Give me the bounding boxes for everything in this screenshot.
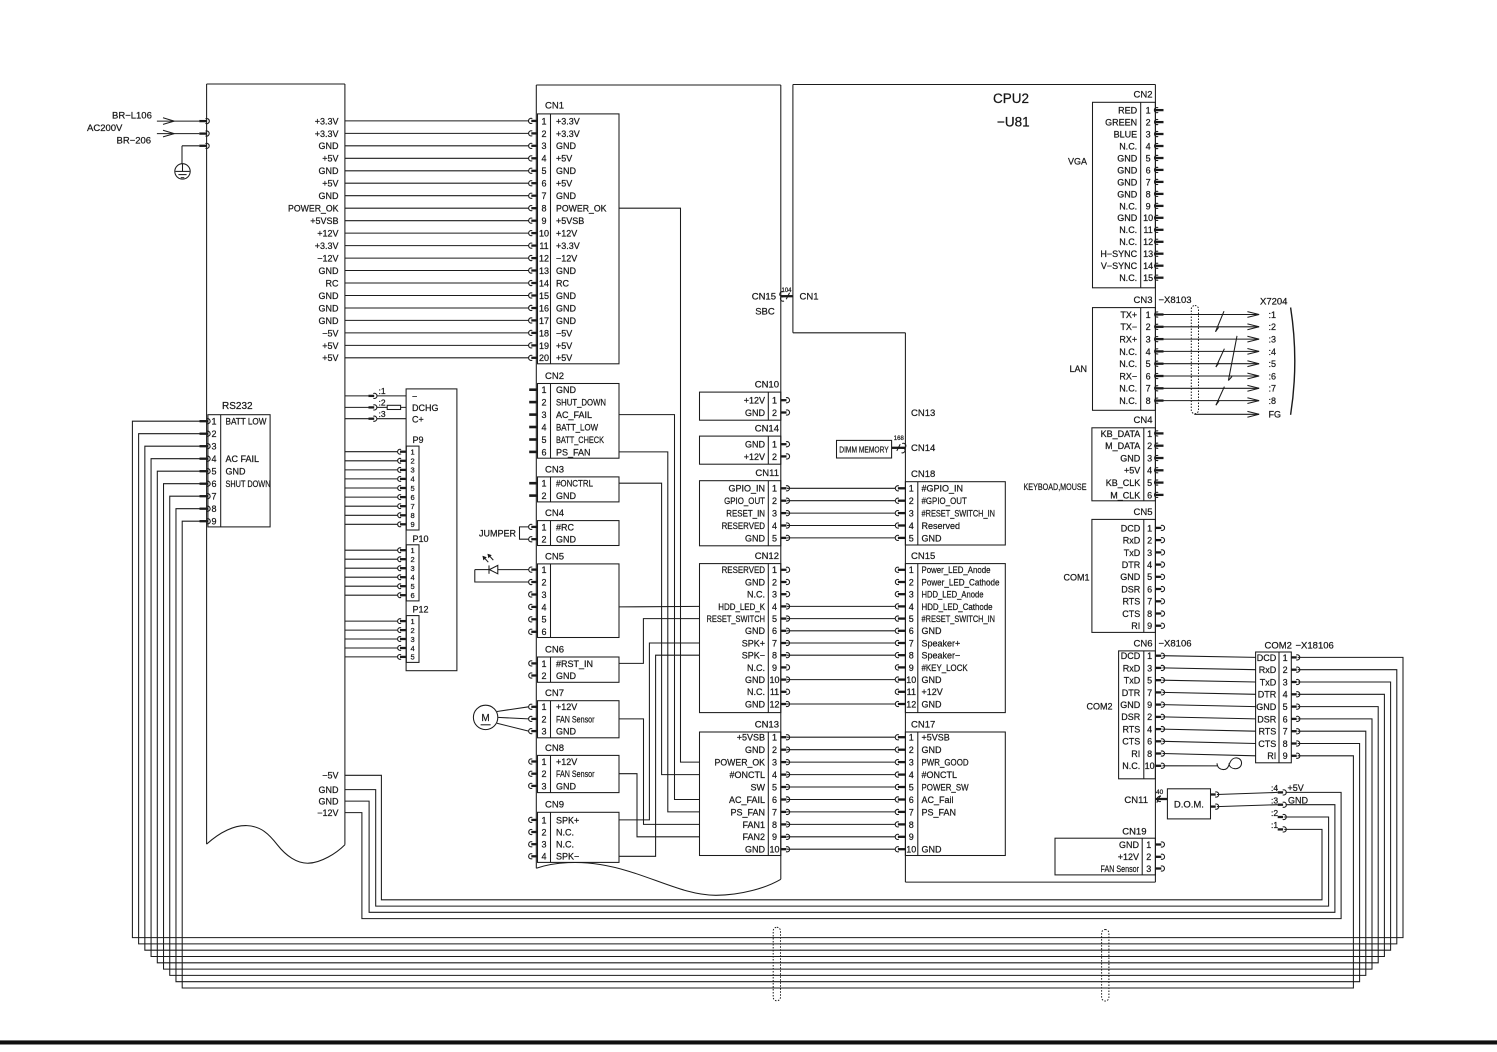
svg-text:4: 4	[541, 602, 546, 612]
svg-text:6: 6	[1147, 737, 1152, 747]
connector CN14 (SBC)	[700, 424, 790, 465]
svg-text:10: 10	[769, 845, 779, 855]
SBC board outline	[536, 85, 781, 895]
svg-text:1: 1	[541, 565, 546, 575]
svg-text:FAN2: FAN2	[742, 832, 765, 842]
svg-text::4: :4	[1269, 347, 1277, 357]
svg-text:2: 2	[1147, 536, 1152, 546]
twisted pair marks on LAN wires	[1216, 311, 1238, 405]
svg-text:N.C.: N.C.	[1119, 201, 1137, 211]
svg-text:#RST_IN: #RST_IN	[556, 659, 593, 669]
svg-text:CN13: CN13	[911, 408, 935, 419]
svg-text:4: 4	[1283, 690, 1288, 700]
svg-text:1: 1	[909, 565, 914, 575]
svg-text:CN14: CN14	[911, 443, 935, 454]
svg-text:8: 8	[411, 511, 415, 520]
svg-text:15: 15	[1143, 273, 1153, 283]
svg-text:RC: RC	[556, 278, 569, 288]
svg-text:CN14: CN14	[755, 424, 779, 435]
svg-text:SPK+: SPK+	[742, 638, 765, 648]
svg-text:2: 2	[772, 496, 777, 506]
svg-text:P10: P10	[413, 534, 429, 544]
svg-text:5: 5	[1146, 153, 1151, 163]
svg-text:1: 1	[541, 757, 546, 767]
svg-text:+12V: +12V	[556, 229, 577, 239]
connector P9	[345, 435, 424, 530]
svg-text:GND: GND	[556, 291, 577, 301]
svg-text:BATT_CHECK: BATT_CHECK	[556, 435, 604, 445]
svg-text:6: 6	[909, 626, 914, 636]
svg-text:CN8: CN8	[545, 743, 564, 754]
connector CN12 (SBC front panel header)	[700, 551, 790, 713]
svg-text::3: :3	[1271, 796, 1278, 806]
D.O.M. cable hooks :4 +5V, :3 GND, :2, :1	[1271, 783, 1309, 832]
CPU2 board outline (-U81)	[793, 85, 1156, 883]
svg-text:RESET_IN: RESET_IN	[726, 509, 765, 519]
svg-text:GND: GND	[922, 845, 943, 855]
svg-text:#ONCTL: #ONCTL	[922, 770, 958, 780]
svg-text:1: 1	[541, 815, 546, 825]
svg-text:TxD: TxD	[1124, 548, 1141, 558]
svg-text:4: 4	[211, 454, 216, 464]
wire RS232 pin 4 to COM2 X18106 pin 4	[151, 459, 1384, 957]
svg-text:3: 3	[1146, 864, 1151, 874]
connector CN4 (CPU2 keyboard/mouse)	[1024, 415, 1164, 501]
svg-text:9: 9	[909, 832, 914, 842]
wire FAN2 CN8.2 to CN13.9	[619, 774, 700, 837]
svg-text:5: 5	[909, 533, 914, 543]
svg-text:8: 8	[211, 504, 216, 514]
svg-text:AC200V: AC200V	[87, 123, 123, 134]
svg-text:GND: GND	[556, 491, 577, 501]
svg-text:SHUT_DOWN: SHUT_DOWN	[556, 398, 606, 408]
socket CN13 label (CPU2)	[911, 408, 935, 419]
svg-text:DCD: DCD	[1121, 651, 1141, 661]
svg-text:GND: GND	[319, 785, 340, 795]
wire FG from shield	[1195, 410, 1281, 420]
svg-text:AC_FAIL: AC_FAIL	[729, 795, 765, 805]
svg-text:10: 10	[539, 229, 549, 239]
svg-text:4: 4	[1147, 560, 1152, 570]
svg-text:2: 2	[541, 129, 546, 139]
wire RS232 pin 9 to COM2 X18106 pin 9	[182, 521, 1353, 988]
svg-text:+5V: +5V	[322, 353, 338, 363]
svg-text:+12V: +12V	[1118, 852, 1139, 862]
svg-text:12: 12	[539, 254, 549, 264]
svg-text:3: 3	[1147, 663, 1152, 673]
svg-text:6: 6	[541, 447, 546, 457]
svg-text:6: 6	[1283, 714, 1288, 724]
connector CN18 (CPU2 GPIO)	[895, 469, 1005, 545]
svg-text:9: 9	[541, 216, 546, 226]
svg-text:CN18: CN18	[911, 469, 935, 480]
svg-text:#ONCTRL: #ONCTRL	[556, 479, 593, 489]
svg-text:2: 2	[1146, 852, 1151, 862]
svg-text:GND: GND	[745, 440, 766, 450]
svg-text:5: 5	[772, 533, 777, 543]
svg-text:8: 8	[772, 651, 777, 661]
svg-text:+5VSB: +5VSB	[310, 216, 338, 226]
svg-text:CTS: CTS	[1258, 739, 1276, 749]
svg-text:BR−L106: BR−L106	[112, 111, 152, 122]
svg-text:2: 2	[541, 535, 546, 545]
svg-text:CN1: CN1	[545, 101, 564, 112]
svg-text:H−SYNC: H−SYNC	[1100, 249, 1137, 259]
svg-text:N.C.: N.C.	[1119, 347, 1137, 357]
svg-text:DTR: DTR	[1122, 688, 1141, 698]
svg-text:5: 5	[1147, 572, 1152, 582]
svg-text:1: 1	[1283, 653, 1288, 663]
svg-text:COM1: COM1	[1063, 572, 1089, 582]
svg-text:VGA: VGA	[1068, 157, 1087, 167]
svg-text:HDD_LED_Cathode: HDD_LED_Cathode	[922, 602, 993, 612]
svg-text:Reserved: Reserved	[922, 521, 961, 531]
svg-text:7: 7	[772, 807, 777, 817]
svg-text:+5V: +5V	[556, 341, 572, 351]
connector CN8 (SBC fan)	[529, 743, 619, 793]
svg-text:2: 2	[772, 577, 777, 587]
svg-text:3: 3	[541, 727, 546, 737]
svg-text:+12V: +12V	[556, 757, 577, 767]
svg-text:2: 2	[1147, 441, 1152, 451]
svg-text::4: :4	[1271, 783, 1278, 793]
svg-text:FAN Sensor: FAN Sensor	[556, 769, 595, 779]
svg-text:3: 3	[411, 564, 415, 573]
svg-text:N.C.: N.C.	[1119, 384, 1137, 394]
svg-text:+12V: +12V	[744, 396, 765, 406]
svg-text:9: 9	[909, 663, 914, 673]
svg-text:8: 8	[909, 820, 914, 830]
svg-text:6: 6	[411, 591, 415, 600]
svg-text:CN4: CN4	[1133, 415, 1152, 426]
LAN wires CN3 to X7204	[1164, 310, 1277, 406]
svg-text:RTS: RTS	[1122, 725, 1140, 735]
svg-text:1: 1	[411, 546, 415, 555]
wire PSU GND to D.O.M. side	[319, 797, 1335, 913]
svg-text:SHUT DOWN: SHUT DOWN	[226, 479, 271, 489]
svg-text:+12V: +12V	[744, 452, 765, 462]
svg-text:X7204: X7204	[1260, 296, 1287, 307]
svg-text:1: 1	[541, 659, 546, 669]
connector CN11 (SBC GPIO)	[700, 468, 790, 546]
svg-text:+3.3V: +3.3V	[315, 241, 339, 251]
svg-text:8: 8	[541, 204, 546, 214]
wire SPK- CN9.4 to CN12.8	[619, 655, 700, 856]
svg-text:7: 7	[411, 502, 415, 511]
svg-text:6: 6	[541, 179, 546, 189]
svg-text:1: 1	[211, 417, 216, 427]
svg-text:Speaker+: Speaker+	[922, 638, 961, 648]
svg-text:3: 3	[541, 141, 546, 151]
svg-text:1: 1	[1147, 523, 1152, 533]
svg-text:GND: GND	[922, 699, 943, 709]
svg-text:#RC: #RC	[556, 522, 575, 532]
svg-text:5: 5	[1146, 359, 1151, 369]
svg-text:FAN Sensor: FAN Sensor	[1101, 864, 1140, 874]
svg-text:RI: RI	[1131, 621, 1140, 631]
svg-text::1: :1	[1269, 310, 1277, 320]
svg-text:CN15: CN15	[752, 292, 776, 303]
svg-text:9: 9	[1283, 751, 1288, 761]
svg-text::2: :2	[379, 398, 386, 408]
cable bundle marker (dashed) right	[1102, 930, 1109, 1002]
svg-text:2: 2	[541, 671, 546, 681]
svg-text:POWER_SW: POWER_SW	[922, 782, 970, 792]
svg-text:GND: GND	[1120, 453, 1141, 463]
connector CN15 (CPU2 front panel)	[895, 551, 1005, 713]
svg-text:KB_DATA: KB_DATA	[1101, 429, 1141, 439]
svg-text:3: 3	[541, 590, 546, 600]
svg-text:Speaker−: Speaker−	[922, 651, 961, 661]
svg-text:CN2: CN2	[545, 371, 564, 382]
svg-text:4: 4	[1146, 347, 1151, 357]
svg-text:GND: GND	[922, 626, 943, 636]
svg-text:GND: GND	[745, 408, 766, 418]
svg-text:2: 2	[541, 398, 546, 408]
svg-text:FAN Sensor: FAN Sensor	[556, 714, 595, 724]
svg-text:1: 1	[1146, 106, 1151, 116]
svg-text:9: 9	[211, 517, 216, 527]
svg-text:GND: GND	[1256, 702, 1277, 712]
svg-text::8: :8	[1269, 396, 1277, 406]
svg-text:GND: GND	[1117, 189, 1138, 199]
svg-text:6: 6	[1146, 371, 1151, 381]
svg-text:7: 7	[909, 807, 914, 817]
svg-text:12: 12	[769, 699, 779, 709]
svg-text:+5VSB: +5VSB	[922, 733, 950, 743]
svg-text:GND: GND	[556, 141, 577, 151]
svg-text:CN15: CN15	[911, 551, 935, 562]
svg-text:11: 11	[770, 687, 779, 697]
svg-text:5: 5	[772, 782, 777, 792]
svg-text:+5VSB: +5VSB	[556, 216, 584, 226]
svg-text:COM2: COM2	[1086, 702, 1112, 712]
svg-text:CN17: CN17	[911, 719, 935, 730]
svg-text:N.C.: N.C.	[1119, 359, 1137, 369]
connector CN5 (CPU2 COM1)	[1063, 507, 1164, 633]
svg-text:8: 8	[1146, 189, 1151, 199]
svg-text:N.C.: N.C.	[1119, 225, 1137, 235]
wire RS232 pin 8 to COM2 X18106 pin 8	[176, 509, 1360, 982]
svg-text:RX−: RX−	[1119, 371, 1137, 381]
connector CN4 (SBC) with jumper	[529, 508, 619, 546]
svg-text:2: 2	[541, 769, 546, 779]
svg-text:AC_Fail: AC_Fail	[922, 795, 954, 805]
svg-text:1: 1	[1147, 429, 1152, 439]
svg-text:GND: GND	[556, 781, 577, 791]
wire CN5.4 to CN12.4 HDD_LED_K	[619, 605, 700, 608]
svg-text:N.C.: N.C.	[1119, 141, 1137, 151]
svg-text:8: 8	[1283, 739, 1288, 749]
svg-text:13: 13	[1143, 249, 1153, 259]
svg-text:1: 1	[411, 617, 415, 626]
svg-text:CN3: CN3	[1133, 295, 1152, 306]
wire CN6.1 #RST_IN to CN12.5 RESET_SWITCH	[619, 619, 700, 664]
svg-text:RED: RED	[1118, 106, 1138, 116]
svg-text:8: 8	[909, 651, 914, 661]
svg-text:−12V: −12V	[317, 254, 338, 264]
svg-text:9: 9	[1147, 621, 1152, 631]
svg-text:SPK−: SPK−	[742, 651, 765, 661]
svg-text:9: 9	[772, 832, 777, 842]
svg-text:1: 1	[772, 733, 777, 743]
svg-text:4: 4	[1146, 141, 1151, 151]
svg-text:CN6: CN6	[545, 644, 564, 655]
svg-text:DIMM MEMORY: DIMM MEMORY	[839, 445, 889, 455]
X7204 connector label and bracket	[1260, 296, 1295, 414]
svg-text:6: 6	[1147, 490, 1152, 500]
svg-text:1: 1	[1146, 840, 1151, 850]
svg-text:−5V: −5V	[556, 328, 572, 338]
svg-text:3: 3	[772, 509, 777, 519]
svg-text:4: 4	[1147, 725, 1152, 735]
svg-text:CN9: CN9	[545, 800, 564, 811]
svg-text:3: 3	[909, 590, 914, 600]
svg-text:GND: GND	[745, 845, 766, 855]
svg-text:GND: GND	[319, 316, 340, 326]
socket CN14 (CPU2) with DIMM MEMORY module	[837, 436, 936, 458]
svg-text:GND: GND	[556, 671, 577, 681]
svg-text:C+: C+	[412, 414, 424, 424]
svg-text:CPU2: CPU2	[993, 91, 1029, 106]
svg-text:Power_LED_Cathode: Power_LED_Cathode	[922, 577, 1000, 587]
svg-text:1: 1	[909, 733, 914, 743]
connector CN1 (SBC power input)	[528, 101, 619, 364]
svg-text:−X8103: −X8103	[1159, 295, 1192, 306]
connector CN2 (CPU2 VGA)	[1068, 90, 1164, 288]
svg-text:+5V: +5V	[322, 179, 338, 189]
svg-text:4: 4	[909, 602, 914, 612]
svg-text:GREEN: GREEN	[1105, 118, 1137, 128]
svg-text:3: 3	[772, 758, 777, 768]
svg-text:2: 2	[1146, 118, 1151, 128]
svg-text:CTS: CTS	[1122, 609, 1140, 619]
svg-text:8: 8	[772, 820, 777, 830]
svg-text:RxD: RxD	[1123, 663, 1141, 673]
svg-text:2: 2	[909, 496, 914, 506]
svg-text:10: 10	[1145, 761, 1155, 771]
svg-text:+5V: +5V	[1288, 783, 1304, 793]
svg-text:13: 13	[539, 266, 549, 276]
board link CN15(SBC)-CN1(CPU2) 104pin	[752, 288, 819, 318]
wire PS_FAN CN2.6 to CN13.7	[619, 452, 700, 812]
svg-text:RxD: RxD	[1259, 665, 1277, 675]
svg-text:−X18106: −X18106	[1296, 640, 1334, 651]
svg-text:5: 5	[909, 614, 914, 624]
svg-text:9: 9	[1146, 201, 1151, 211]
svg-text:+3.3V: +3.3V	[556, 129, 580, 139]
svg-text:2: 2	[909, 577, 914, 587]
svg-text:1: 1	[411, 448, 415, 457]
wire POWER_OK CN1.8 to CN13.3	[619, 208, 700, 762]
svg-text:CN7: CN7	[545, 688, 564, 699]
svg-text:GND: GND	[556, 316, 577, 326]
svg-text:M_DATA: M_DATA	[1105, 441, 1140, 451]
svg-text:1: 1	[541, 522, 546, 532]
svg-text:GND: GND	[556, 166, 577, 176]
svg-text:Power_LED_Anode: Power_LED_Anode	[922, 565, 991, 575]
LAN cable shield (dashed)	[1191, 306, 1198, 414]
svg-text:11: 11	[907, 687, 916, 697]
svg-text:N.C.: N.C.	[556, 840, 574, 850]
svg-text:KEYBOAD,MOUSE: KEYBOAD,MOUSE	[1024, 482, 1087, 492]
svg-text:16: 16	[539, 303, 549, 313]
svg-text:3: 3	[1146, 335, 1151, 345]
svg-text:7: 7	[1147, 688, 1152, 698]
svg-text:GND: GND	[319, 191, 340, 201]
connector CN17 (CPU2 power header)	[895, 719, 1005, 855]
svg-text:CN3: CN3	[545, 464, 564, 475]
svg-text:N.C.: N.C.	[747, 687, 765, 697]
wire AC_FAIL CN2.3 to CN13.6	[619, 415, 700, 800]
svg-text:+3.3V: +3.3V	[556, 241, 580, 251]
svg-text:GND: GND	[922, 745, 943, 755]
svg-text:DSR: DSR	[1121, 712, 1141, 722]
svg-text:12: 12	[1143, 237, 1153, 247]
svg-text:7: 7	[541, 191, 546, 201]
svg-text:4: 4	[541, 154, 546, 164]
wire RS232 pin 6 to COM2 X18106 pin 6	[164, 484, 1372, 969]
svg-text:RX+: RX+	[1119, 335, 1137, 345]
svg-text:GND: GND	[319, 291, 340, 301]
AC input AC200V line 2	[87, 123, 209, 137]
svg-text:5: 5	[211, 467, 216, 477]
svg-text:RI: RI	[1267, 751, 1276, 761]
svg-text:9: 9	[411, 520, 415, 529]
svg-text:DCHG: DCHG	[412, 403, 439, 413]
svg-text:GND: GND	[1117, 165, 1138, 175]
svg-text:7: 7	[1283, 727, 1288, 737]
svg-text:DCD: DCD	[1257, 653, 1277, 663]
svg-text:6: 6	[541, 627, 546, 637]
svg-text:FAN1: FAN1	[742, 820, 765, 830]
svg-text:10: 10	[906, 675, 916, 685]
svg-text:7: 7	[211, 492, 216, 502]
svg-text:6: 6	[772, 626, 777, 636]
svg-text:#ONCTL: #ONCTL	[729, 770, 765, 780]
svg-text:3: 3	[909, 758, 914, 768]
svg-text:2: 2	[909, 745, 914, 755]
svg-text:1: 1	[541, 116, 546, 126]
svg-text:N.C.: N.C.	[747, 663, 765, 673]
wire RS232 pin 3 to COM2 X18106 pin 3	[145, 446, 1391, 950]
svg-text:19: 19	[539, 341, 549, 351]
svg-text:AC FAIL: AC FAIL	[226, 454, 260, 464]
svg-text:18: 18	[539, 328, 549, 338]
svg-text::2: :2	[1271, 808, 1278, 818]
svg-text:GND: GND	[556, 535, 577, 545]
svg-text:RC: RC	[326, 278, 339, 288]
svg-text:+12V: +12V	[922, 687, 943, 697]
svg-text:TX−: TX−	[1120, 322, 1137, 332]
svg-text:5: 5	[411, 582, 415, 591]
connector CN11 (CPU2) to D.O.M. 40pin ribbon	[1124, 789, 1167, 806]
wire PSU -5V to D.O.M. side	[322, 771, 1322, 900]
svg-text:4: 4	[772, 521, 777, 531]
svg-text:GND: GND	[319, 303, 340, 313]
svg-text:GND: GND	[319, 797, 340, 807]
svg-text:9: 9	[772, 663, 777, 673]
svg-text:CN6: CN6	[1133, 638, 1152, 649]
svg-text:#RESET_SWITCH_IN: #RESET_SWITCH_IN	[922, 509, 996, 519]
svg-text:CN11: CN11	[755, 468, 779, 479]
svg-text:2: 2	[772, 408, 777, 418]
svg-text:5: 5	[909, 782, 914, 792]
svg-text:CN10: CN10	[755, 380, 779, 391]
svg-text:CN13: CN13	[755, 719, 779, 730]
svg-text:GND: GND	[745, 699, 766, 709]
svg-text:+5V: +5V	[322, 341, 338, 351]
